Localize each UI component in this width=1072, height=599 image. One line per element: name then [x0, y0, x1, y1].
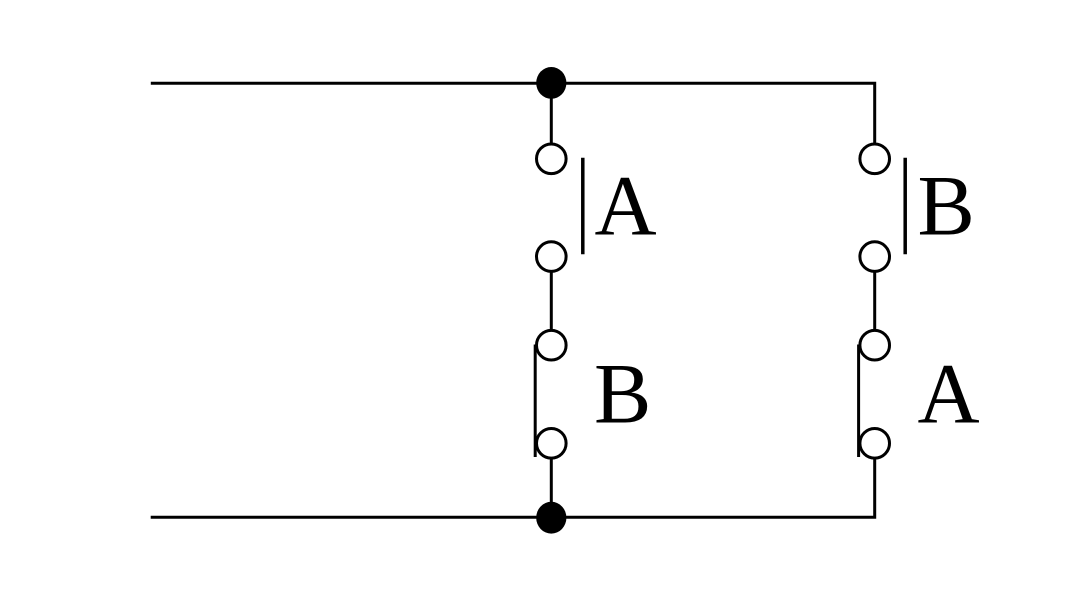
contact B left branch: closed bridging bar (tangent on left)	[534, 345, 537, 458]
contact B right branch: terminal circle 2	[860, 242, 890, 272]
wire: left branch upper segment (top node to contact A)	[550, 83, 553, 144]
svg-text:A: A	[595, 158, 657, 254]
svg-text:B: B	[594, 346, 651, 442]
contact B left branch: terminal circle 2	[537, 429, 567, 459]
contact A left branch: terminal circle 2	[537, 242, 567, 272]
contact A right branch (normally-closed contact): terminal circle 1	[860, 330, 890, 360]
contact B left branch (normally-closed contact): terminal circle 1	[537, 330, 567, 360]
contact B right branch (normally-open push contact): terminal circle 1	[860, 144, 890, 174]
contact B right branch: movable bar	[903, 158, 907, 255]
wire: top rail from left end to right corner, down to right branch	[151, 83, 875, 143]
svg-text:A: A	[918, 346, 980, 442]
svg-text:B: B	[918, 158, 975, 254]
contact A right branch: closed bridging bar (tangent on left)	[857, 345, 860, 458]
wire: right branch middle segment	[873, 272, 876, 331]
wire: left branch middle segment (contact A to contact B)	[550, 272, 553, 331]
contact A right branch: terminal circle 2	[860, 429, 890, 459]
wire: bottom rail from left end to right corner, up to right branch	[151, 459, 875, 518]
junction dot: bottom node at left branch tap	[536, 502, 566, 534]
contact A left branch: movable bar	[581, 158, 585, 255]
junction dot: top node at left branch tap	[536, 67, 566, 99]
contact A left branch (normally-open push contact): terminal circle 1	[537, 144, 567, 174]
wire: left branch lower segment (contact B to bottom node)	[550, 459, 553, 518]
